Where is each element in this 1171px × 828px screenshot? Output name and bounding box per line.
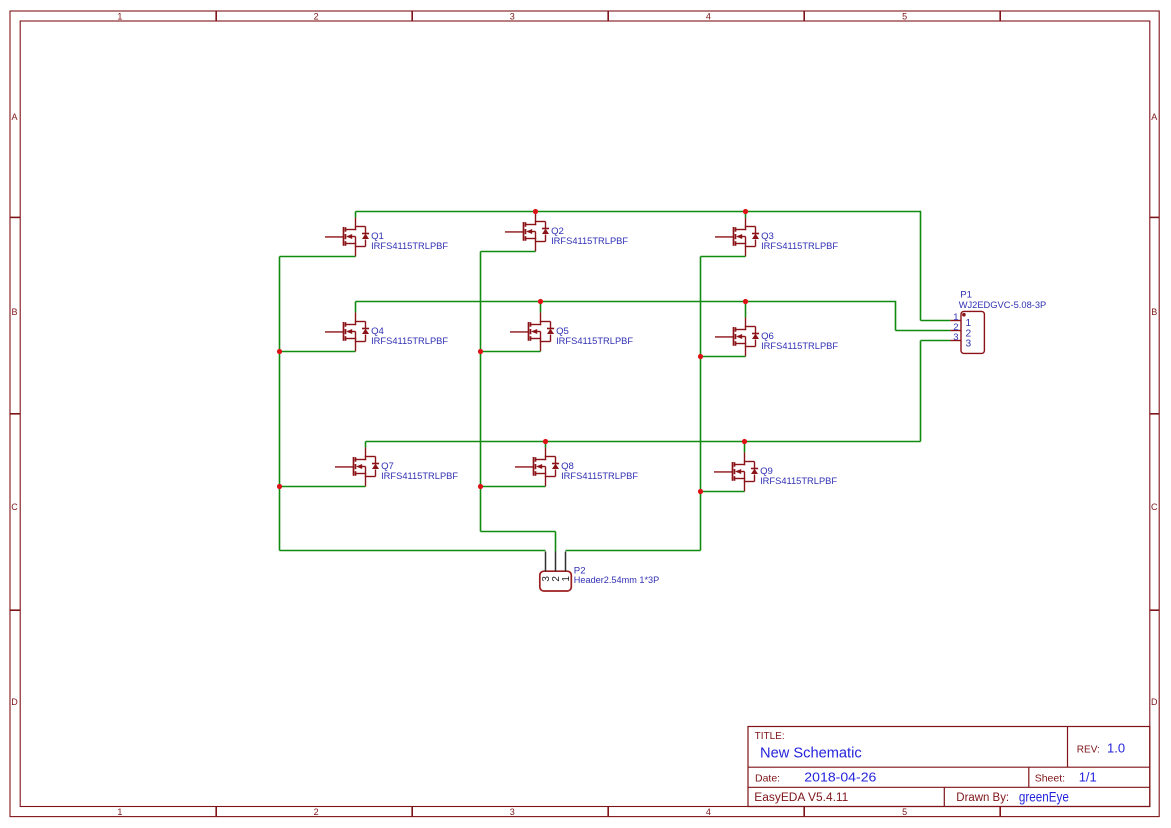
svg-text:A: A bbox=[1151, 112, 1157, 122]
wire net D123 to P1 pin1 bbox=[921, 320, 951, 322]
svg-text:B: B bbox=[11, 307, 17, 317]
wire net S258 drop to P2 pin2 bbox=[555, 532, 557, 552]
svg-text:1/1: 1/1 bbox=[1079, 769, 1097, 784]
wire Q6 source horizontal bbox=[701, 356, 746, 358]
svg-text:1.0: 1.0 bbox=[1107, 741, 1125, 756]
wire net D123 top horizontal bbox=[356, 211, 921, 213]
svg-text:Sheet:: Sheet: bbox=[1035, 772, 1065, 784]
junction Q7 source bbox=[277, 484, 282, 489]
wire net S147 vertical bbox=[279, 257, 281, 551]
transistor Q5 IRFS4115TRLPBF bbox=[510, 312, 633, 351]
wire Q1 source horizontal bbox=[280, 256, 356, 258]
wire Q4 source horizontal bbox=[280, 351, 356, 353]
wire net S369 bottom horizontal to P2 pin1 bbox=[566, 550, 701, 552]
svg-text:2: 2 bbox=[314, 11, 319, 21]
transistor Q3 IRFS4115TRLPBF bbox=[715, 217, 838, 256]
title block bbox=[748, 727, 1150, 807]
svg-text:IRFS4115TRLPBF: IRFS4115TRLPBF bbox=[381, 471, 458, 482]
wire net D789 horizontal bbox=[366, 441, 921, 443]
wire Q7 drain stub bbox=[365, 442, 367, 448]
wire Q7 source horizontal bbox=[280, 486, 366, 488]
svg-text:2018-04-26: 2018-04-26 bbox=[804, 769, 876, 784]
wire Q6 drain stub bbox=[745, 302, 747, 318]
P2 pin numbers (rotated) bbox=[541, 576, 572, 582]
svg-text:REV:: REV: bbox=[1077, 744, 1100, 755]
wire Q3 drain stub bbox=[745, 212, 747, 218]
wire net S147 bottom horizontal to P2 pin3 bbox=[280, 550, 546, 552]
svg-text:3: 3 bbox=[953, 332, 958, 343]
connector P1 WJ2EDGVC-5.08-3P bbox=[950, 290, 1046, 354]
svg-text:4: 4 bbox=[706, 11, 711, 21]
svg-text:IRFS4115TRLPBF: IRFS4115TRLPBF bbox=[556, 336, 633, 347]
P1 pin numbers inside bbox=[966, 318, 972, 349]
junction Q8 drain bbox=[543, 439, 548, 444]
svg-text:2: 2 bbox=[314, 807, 319, 817]
svg-text:1: 1 bbox=[117, 11, 122, 21]
transistor Q8 IRFS4115TRLPBF bbox=[515, 447, 638, 486]
svg-text:3: 3 bbox=[510, 807, 515, 817]
svg-text:5: 5 bbox=[902, 11, 907, 21]
transistor Q4 IRFS4115TRLPBF bbox=[325, 312, 448, 351]
connector P2 Header 1x3 bbox=[540, 552, 659, 592]
svg-text:greenEye: greenEye bbox=[1019, 790, 1069, 805]
svg-text:IRFS4115TRLPBF: IRFS4115TRLPBF bbox=[761, 341, 838, 352]
wire Q5 drain stub bbox=[540, 302, 542, 313]
wire net D456 vertical to P1 bbox=[895, 301, 897, 331]
svg-text:C: C bbox=[1151, 502, 1158, 512]
wire net D456 to P1 pin2 bbox=[896, 330, 951, 332]
junction Q8 source bbox=[478, 484, 483, 489]
svg-text:D: D bbox=[1151, 697, 1158, 707]
wire Q8 drain stub bbox=[545, 442, 547, 448]
svg-text:Date:: Date: bbox=[755, 772, 780, 784]
svg-text:B: B bbox=[1151, 307, 1157, 317]
svg-text:1: 1 bbox=[117, 807, 122, 817]
svg-text:TITLE:: TITLE: bbox=[755, 731, 785, 742]
svg-text:1: 1 bbox=[561, 576, 572, 582]
svg-text:IRFS4115TRLPBF: IRFS4115TRLPBF bbox=[371, 241, 448, 252]
wire net D456 horizontal bbox=[356, 301, 896, 303]
svg-text:IRFS4115TRLPBF: IRFS4115TRLPBF bbox=[371, 336, 448, 347]
svg-text:IRFS4115TRLPBF: IRFS4115TRLPBF bbox=[760, 476, 837, 487]
transistor Q2 IRFS4115TRLPBF bbox=[505, 212, 628, 251]
svg-text:3: 3 bbox=[510, 11, 515, 21]
svg-text:4: 4 bbox=[706, 807, 711, 817]
svg-text:IRFS4115TRLPBF: IRFS4115TRLPBF bbox=[561, 471, 638, 482]
wire Q4 drain stub bbox=[355, 302, 357, 313]
wire net S258 bottom horizontal bbox=[481, 531, 556, 533]
junction Q6 source bbox=[698, 354, 703, 359]
svg-text:EasyEDA V5.4.11: EasyEDA V5.4.11 bbox=[754, 792, 848, 804]
svg-text:Drawn By:: Drawn By: bbox=[956, 792, 1009, 804]
wire Q9 source horizontal bbox=[701, 491, 745, 493]
wire net D789 vertical to P1 bbox=[920, 341, 922, 442]
wire Q9 drain stub bbox=[744, 442, 746, 453]
title block text bbox=[754, 731, 1125, 805]
transistor Q1 IRFS4115TRLPBF bbox=[325, 217, 448, 256]
svg-text:5: 5 bbox=[902, 807, 907, 817]
junction Q3 drain bbox=[743, 209, 748, 214]
svg-text:C: C bbox=[11, 502, 18, 512]
transistor Q7 IRFS4115TRLPBF bbox=[335, 447, 458, 486]
junction Q2 drain bbox=[533, 209, 538, 214]
P1 pin numbers outside bbox=[953, 312, 958, 343]
wire net S258 vertical bbox=[480, 252, 482, 532]
wire net D789 to P1 pin3 bbox=[921, 340, 951, 342]
wire net D123 vertical to P1 bbox=[920, 211, 922, 321]
wire Q2 source horizontal bbox=[481, 251, 536, 253]
svg-text:New Schematic: New Schematic bbox=[760, 745, 862, 762]
transistor Q6 IRFS4115TRLPBF bbox=[715, 317, 838, 356]
wire Q1 drain stub bbox=[355, 212, 357, 218]
svg-text:IRFS4115TRLPBF: IRFS4115TRLPBF bbox=[551, 236, 628, 247]
svg-text:A: A bbox=[11, 112, 17, 122]
junction Q5 drain bbox=[538, 299, 543, 304]
svg-text:WJ2EDGVC-5.08-3P: WJ2EDGVC-5.08-3P bbox=[959, 300, 1047, 311]
wire net S369 vertical bbox=[700, 257, 702, 551]
wire Q3 source horizontal bbox=[701, 256, 746, 258]
svg-text:D: D bbox=[11, 697, 18, 707]
svg-text:P1: P1 bbox=[960, 290, 972, 301]
junction Q4 source bbox=[277, 349, 282, 354]
junction Q9 source bbox=[698, 489, 703, 494]
wire Q8 source horizontal bbox=[481, 486, 546, 488]
wire Q5 source horizontal bbox=[481, 351, 541, 353]
svg-text:Header2.54mm 1*3P: Header2.54mm 1*3P bbox=[574, 575, 659, 586]
junction Q6 drain bbox=[743, 299, 748, 304]
transistor Q9 IRFS4115TRLPBF bbox=[714, 452, 837, 491]
junction Q9 drain bbox=[742, 439, 747, 444]
svg-text:IRFS4115TRLPBF: IRFS4115TRLPBF bbox=[761, 241, 838, 252]
svg-text:3: 3 bbox=[966, 338, 972, 349]
junction Q5 source bbox=[478, 349, 483, 354]
